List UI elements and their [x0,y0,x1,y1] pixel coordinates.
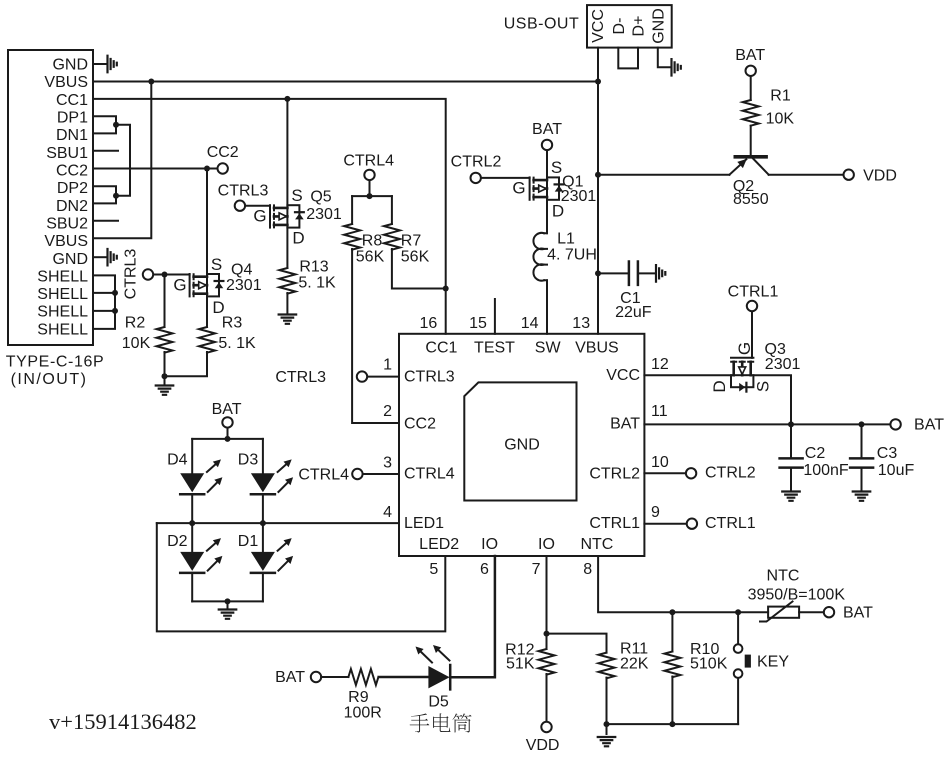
svg-text:Q4: Q4 [231,261,252,278]
svg-text:1: 1 [383,357,392,374]
wire SBU2 stub [93,220,118,222]
wire USB VCC down [597,48,599,82]
svg-text:C2: C2 [805,445,826,462]
wire to R10 [671,612,673,651]
terminal VDD (Q2) [844,170,854,180]
svg-text:4. 7UH: 4. 7UH [547,247,597,264]
svg-text:6: 6 [480,561,489,578]
wire to D2 [191,523,193,552]
svg-text:12: 12 [651,356,669,373]
terminal CTRL2 (pin10) [686,468,696,478]
svg-text:2301: 2301 [765,356,801,373]
wire USB GND [658,48,671,68]
svg-text:R9: R9 [348,689,369,706]
svg-text:DP1: DP1 [57,110,88,127]
terminal CTRL4 (top) [364,170,374,180]
svg-text:TYPE-C-16P: TYPE-C-16P [6,354,104,371]
svg-text:SHELL: SHELL [37,321,88,338]
junction LED bottom rail [225,598,231,604]
svg-text:5. 1K: 5. 1K [298,275,336,292]
wire BAT to R1 [750,77,752,101]
svg-text:14: 14 [521,315,539,332]
svg-text:7: 7 [532,561,541,578]
LED D1 [251,552,275,571]
wire R7 top [391,196,393,224]
terminal CTRL2 (Q1 gate) [471,173,481,183]
wire pin10 [644,472,685,474]
terminal BAT (NTC) [824,607,834,617]
wire L1 to pin14 [546,280,548,334]
wire R13 bottom [286,293,288,315]
wire D5 to pin6 [450,556,495,677]
svg-text:SW: SW [535,340,562,357]
svg-text:SHELL: SHELL [37,286,88,303]
svg-text:DN1: DN1 [56,127,88,144]
wire R7 bottom to CC1 [392,249,446,289]
svg-text:100R: 100R [344,705,382,722]
transistor Q4 (2301 P-MOSFET) [190,274,224,296]
IC U1 body [399,334,644,556]
wire pin7 down [546,556,548,634]
wire R1 to Q2 [750,126,752,155]
terminal BAT (LED bridge) [222,417,232,427]
svg-text:VBUS: VBUS [575,340,619,357]
svg-text:56K: 56K [401,249,430,266]
wire D1 to bottom rail [262,573,264,602]
wire CTRL4 down [369,181,371,197]
svg-text:LED2: LED2 [419,536,459,553]
transistor Q2 (8550 PNP) [735,155,766,159]
terminal CTRL4 (pin3) [352,469,362,479]
junction NTC/R10 [669,609,675,615]
svg-text:VBUS: VBUS [44,233,88,250]
wire GND pin1 stub [93,63,107,65]
wire D4 to mid rail [191,494,193,523]
wire CC1 net [93,99,446,334]
junction SHELL a [112,290,118,296]
junction LED top rail [225,436,231,442]
svg-text:CTRL3: CTRL3 [275,369,326,386]
wire R8 bottom to pin2 [352,249,399,423]
terminal BAT (Q1) [542,140,552,150]
wire USB D-/D+ bracket [618,48,638,69]
wire to D4 [191,439,193,473]
wire DP/DN cross link [116,125,130,196]
svg-text:G: G [173,275,186,294]
wire D3 to mid rail [262,494,264,523]
junction VBUS/C1 [595,270,601,276]
wire Q5 D to R13 [286,228,288,268]
svg-text:R1: R1 [770,88,791,105]
svg-text:BAT: BAT [735,47,765,64]
LED D1 arrows [278,542,288,551]
svg-text:R2: R2 [125,315,146,332]
terminal CTRL1 (pin9) [687,519,697,529]
svg-text:R8: R8 [362,233,383,250]
svg-text:Q5: Q5 [310,189,331,206]
wire pin1 to CTRL3 terminal [368,376,399,378]
LED D3 arrows [278,463,288,472]
LED D5 arrows [420,651,432,662]
junction CC2/Q4-S [204,166,210,172]
junction CC1/Q5-S [284,96,290,102]
svg-text:CC2: CC2 [404,416,436,433]
ground (LED bridge) [219,610,237,619]
wire Q4 D to R3 [206,296,208,327]
wire R10 down [671,677,673,725]
svg-text:D+: D+ [631,16,648,37]
transistor Q1 (2301 P-MOSFET) [530,177,564,199]
terminal VDD (R12) [541,722,551,732]
wire R7-R8 top link [352,195,392,197]
wire to ground [164,376,166,385]
svg-text:C3: C3 [877,445,898,462]
svg-text:KEY: KEY [757,654,789,671]
wire to C1 [598,272,628,274]
junction CTRL4/R7/R8 [367,193,373,199]
svg-text:LED1: LED1 [404,515,444,532]
junction mid rail D4 [189,520,195,526]
wire CTRL3 to Q5 gate [246,205,270,207]
terminal CTRL1 (Q3 gate) [747,301,757,311]
junction R11 ground rail [604,721,610,727]
svg-text:v+15914136482: v+15914136482 [49,709,197,734]
svg-text:CTRL4: CTRL4 [298,467,349,484]
svg-text:510K: 510K [690,656,728,673]
LED D2 [180,552,204,571]
svg-text:CTRL3: CTRL3 [123,249,140,300]
svg-text:BAT: BAT [212,401,242,418]
wire Q2 emitter diagonal [729,159,746,174]
ground (R13) [279,315,297,324]
junction VBUS/Q2 base [595,172,601,178]
wire to R12 [546,634,548,649]
svg-text:10K: 10K [766,111,795,128]
svg-text:D: D [710,380,729,392]
wire SBU1 stub [93,150,118,152]
svg-text:CTRL4: CTRL4 [404,466,455,483]
svg-text:CTRL1: CTRL1 [728,284,779,301]
svg-text:22uF: 22uF [615,304,652,321]
terminal CTRL3 (pin1) [357,371,367,381]
svg-text:11: 11 [651,403,668,420]
svg-text:2301: 2301 [306,206,342,223]
svg-text:9: 9 [651,504,660,521]
svg-text:G: G [253,206,266,225]
wire bottom ground rail [607,723,739,725]
svg-text:8: 8 [583,561,592,578]
wire VBUS2 to VBUS [93,82,151,239]
svg-text:56K: 56K [356,249,385,266]
svg-text:BAT: BAT [275,669,305,686]
svg-text:CTRL2: CTRL2 [451,154,502,171]
svg-text:VCC: VCC [590,9,607,43]
wire pin9 [644,523,686,525]
wire pin3 to CTRL4 terminal [363,473,399,475]
svg-text:10K: 10K [122,335,151,352]
svg-text:VBUS: VBUS [44,74,88,91]
wire pin8 NTC net [598,556,768,612]
terminal CTRL3 (Q5 gate) [235,201,245,211]
svg-text:CTRL1: CTRL1 [705,515,756,532]
svg-text:15: 15 [469,315,487,332]
svg-text:S: S [211,255,222,274]
svg-text:5: 5 [429,561,438,578]
svg-text:GND: GND [52,57,88,74]
wire R3 bottom [165,352,208,376]
svg-text:TEST: TEST [474,340,515,357]
svg-text:NTC: NTC [767,568,800,585]
svg-text:100nF: 100nF [803,462,849,479]
wire KEY bottom [737,678,739,724]
LED D5 [428,666,449,688]
svg-text:22K: 22K [620,656,649,673]
svg-text:S: S [551,158,562,177]
junction SHELL b [112,308,118,314]
junction CC1/R7 [443,286,449,292]
svg-text:CTRL4: CTRL4 [343,152,394,169]
wire Q2 to VDD [769,174,844,176]
wire R2 top [164,275,166,328]
svg-text:D1: D1 [238,533,259,550]
svg-text:BAT: BAT [532,121,562,138]
svg-text:VDD: VDD [863,167,897,184]
wire R2 bottom [164,352,166,376]
junction pin7/R12/R11 [544,631,550,637]
svg-text:D2: D2 [167,533,188,550]
wire Q5 S to CC1 [286,99,288,205]
svg-text:S: S [753,381,772,392]
svg-text:SHELL: SHELL [37,268,88,285]
wire C3 to ground [861,469,863,492]
svg-text:BAT: BAT [914,416,944,433]
svg-text:SHELL: SHELL [37,304,88,321]
svg-text:IO: IO [481,536,498,553]
wire Q2 base from VBUS [598,174,729,176]
svg-text:R7: R7 [401,233,422,250]
wire Q2 collector diagonal [753,159,769,175]
junction DP2/DN2 [113,193,119,199]
wire R9 to D5 [379,676,429,679]
svg-text:BAT: BAT [843,604,873,621]
terminal CTRL3 (Q4 gate) [143,269,153,279]
wire bypass to pin5 [157,523,446,631]
connector USB-OUT box [587,5,672,48]
svg-text:(IN/OUT): (IN/OUT) [11,371,88,388]
wire to C3 [861,424,863,457]
wire BAT to top rail [227,428,229,439]
wire VBUS vertical to pin13 [597,82,599,334]
terminal CC2 [218,163,228,173]
svg-text:R13: R13 [299,259,328,276]
wire R8 top [351,196,353,224]
svg-text:2301: 2301 [226,277,262,294]
wire NTC to BAT [799,611,823,613]
svg-text:BAT: BAT [610,415,640,432]
wire R12 to VDD [546,674,548,721]
ground (R11) [598,737,616,746]
junction mid rail D3 [260,520,266,526]
wire CTRL3 to Q4 gate [154,274,190,276]
svg-text:USB-OUT: USB-OUT [504,16,580,33]
LED D4 [180,473,204,492]
wire to R11 [547,634,607,653]
ground (USB-OUT) [672,59,681,76]
wire R11 down [606,678,608,725]
svg-text:DN2: DN2 [56,198,88,215]
connector J1 TYPE-C-16P box [8,50,93,345]
transistor Q3 (2301 P-MOSFET) [731,358,753,392]
terminal BAT (R9) [311,672,321,682]
svg-text:13: 13 [572,315,590,332]
junction DP1/DN1 [113,122,119,128]
svg-text:D4: D4 [167,451,188,468]
wire GND pin12 stub [93,256,107,258]
svg-text:GND: GND [52,251,88,268]
svg-text:VDD: VDD [526,737,560,754]
wire KEY top [737,612,739,644]
wire pin15 stub [494,299,496,334]
junction VBUS/VBUS2 [148,79,154,85]
thermistor NTC [768,607,799,618]
svg-text:VCC: VCC [606,367,640,384]
transistor Q5 (2301 P-MOSFET) [270,205,304,227]
ground (C1) [656,265,665,282]
svg-text:CTRL2: CTRL2 [705,465,756,482]
junction BAT/C3 [859,421,865,427]
wire LED bottom rail [192,600,263,602]
svg-text:SBU2: SBU2 [46,215,88,232]
wire LED mid rail / pin4 LED1 [157,522,399,524]
svg-text:DP2: DP2 [57,180,88,197]
ground (GND pin1) [108,56,117,73]
svg-text:GND: GND [650,8,667,44]
junction VBUS/USB-VCC [595,79,601,85]
svg-text:IO: IO [538,536,555,553]
wire BAT rail pin11 [644,423,890,425]
ground (GND pin12) [108,249,117,266]
ground (C3) [853,492,871,501]
svg-text:2301: 2301 [561,188,597,205]
svg-text:CTRL1: CTRL1 [589,515,640,532]
svg-text:SBU1: SBU1 [46,145,88,162]
wire DP2-DN2 bracket [93,186,116,203]
svg-text:L1: L1 [557,231,575,248]
terminal BAT (R1) [746,66,756,76]
ground (C2) [782,492,800,501]
svg-text:16: 16 [420,315,438,332]
svg-text:CTRL3: CTRL3 [404,368,455,385]
wire LED top rail [192,438,263,440]
wire CTRL2 to Q1 gate [481,177,529,179]
wire VBUS net top [93,81,598,83]
label 手电筒 (flashlight) [410,713,472,732]
wire CC2 from connector [93,168,217,170]
svg-text:G: G [512,178,525,197]
svg-text:D: D [292,228,304,247]
wire Q3 S to BAT rail [753,375,791,424]
wire C1 to ground [639,272,656,274]
wire DP1-DN1 bracket [93,116,116,133]
svg-text:CTRL3: CTRL3 [218,182,269,199]
svg-text:CC2: CC2 [56,163,88,180]
svg-text:3: 3 [383,455,392,472]
svg-text:S: S [291,186,302,205]
svg-text:CC2: CC2 [207,144,239,161]
wire to C2 [790,424,792,457]
LED D3 [251,473,275,492]
LED D2 arrows [207,542,217,551]
svg-text:51K: 51K [506,656,535,673]
wire to ground [606,724,608,734]
wire Q4 S to CC2 [206,169,208,275]
svg-text:GND: GND [504,437,540,454]
wire to D3 [262,439,264,473]
wire to D1 [262,523,264,552]
junction R2/R3 ground [162,373,168,379]
svg-text:3950/B=100K: 3950/B=100K [748,586,846,603]
svg-text:NTC: NTC [580,536,613,553]
svg-text:10: 10 [651,454,669,471]
wire Q1 D to L1 [546,200,548,233]
wire to ground [227,601,229,609]
svg-text:CC1: CC1 [425,340,457,357]
wire CTRL1 to Q3 gate [751,312,753,358]
LED D4 arrows [207,463,217,472]
terminal BAT (rail) [890,419,900,429]
svg-text:CTRL2: CTRL2 [589,466,640,483]
junction R10 ground rail [669,721,675,727]
svg-text:R3: R3 [222,315,243,332]
svg-text:4: 4 [383,504,392,521]
svg-text:G: G [735,342,754,355]
wire BAT to R9 [321,676,348,678]
svg-text:D3: D3 [238,451,259,468]
junction BAT/C2 [788,421,794,427]
svg-text:8550: 8550 [733,191,769,208]
wire SHELL bracket [93,275,115,329]
wire D2 to bottom rail [191,573,193,602]
IC U1 GND pad [464,382,576,500]
junction NTC/KEY [735,609,741,615]
svg-text:D5: D5 [428,694,449,711]
wire BAT to Q1 S [546,151,548,178]
junction CTRL3/R2 [162,272,168,278]
svg-text:2: 2 [383,403,392,420]
wire pin12 to Q3 D [644,374,731,376]
wire C2 to ground [790,469,792,492]
svg-text:10uF: 10uF [878,462,915,479]
svg-text:D-: D- [611,18,628,35]
svg-text:CC1: CC1 [56,92,88,109]
svg-text:5. 1K: 5. 1K [218,335,256,352]
